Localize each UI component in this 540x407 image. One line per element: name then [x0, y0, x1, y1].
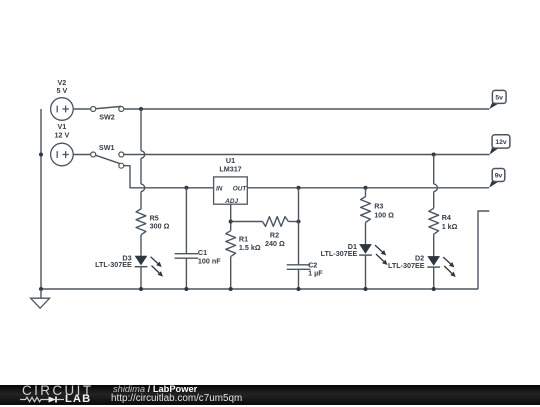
- wire left vertical from sources to ground rail: [40, 109, 42, 289]
- resistor R1: [226, 231, 236, 257]
- label R5 300 Ohm: [150, 213, 170, 230]
- svg-text:OUT: OUT: [233, 186, 248, 193]
- pin label IN: [216, 186, 223, 193]
- resistor R4 branch wire with hop: [434, 155, 438, 209]
- wire 12v rail: [51, 154, 490, 156]
- svg-text:SW1: SW1: [99, 143, 115, 152]
- label R3 100 Ohm: [374, 201, 394, 219]
- capacitor C2: [287, 265, 311, 270]
- LED D1: [359, 244, 387, 265]
- svg-text:ADJ: ADJ: [224, 198, 238, 205]
- label C2 1 uF: [308, 260, 323, 277]
- svg-text:IN: IN: [216, 186, 223, 193]
- CircuitLab logo wordmark: [22, 384, 93, 397]
- svg-text:R3: R3: [374, 201, 383, 210]
- wire R1 to ground rail: [229, 257, 233, 291]
- voltage source V2: [51, 98, 74, 121]
- wire R5 to D3: [140, 235, 142, 256]
- wire 5v rail: [51, 108, 490, 110]
- wire ADJ to R2: [231, 221, 263, 223]
- wire ground rail bottom: [41, 288, 478, 290]
- label V1 12 V: [55, 122, 70, 140]
- capacitor C1 wires: [184, 188, 188, 291]
- LED D3: [135, 256, 163, 277]
- net flag 9v: [489, 169, 505, 188]
- label R1 1.5 kOhm: [239, 234, 261, 252]
- wire D3 to ground rail: [139, 267, 143, 291]
- net flag 5v: [489, 90, 506, 109]
- svg-text:LTL-307EE: LTL-307EE: [321, 249, 358, 258]
- node junction 5v rail to R5 branch: [139, 107, 143, 111]
- label V2 5 V: [57, 78, 68, 95]
- svg-text:R4: R4: [442, 213, 451, 222]
- capacitor C1: [175, 254, 199, 259]
- wire R2 to C2 branch: [288, 220, 300, 224]
- net flag 12v: [490, 135, 510, 155]
- svg-text:1 µF: 1 µF: [308, 269, 323, 278]
- wire R4 to D2: [433, 234, 435, 256]
- node junction 9v rail to C2 branch: [297, 186, 301, 190]
- label C1 100 nF: [198, 248, 221, 265]
- wire right stub up from ground rail: [478, 211, 489, 289]
- svg-text:LTL-307EE: LTL-307EE: [388, 261, 425, 270]
- wire R3 to D1: [365, 223, 367, 245]
- node junction left wire to V1: [39, 153, 43, 157]
- svg-text:1.5 kΩ: 1.5 kΩ: [239, 243, 261, 252]
- pin label ADJ: [224, 198, 238, 205]
- op-amp U1 LM317 box: [214, 177, 248, 204]
- svg-text:240 Ω: 240 Ω: [265, 239, 285, 248]
- svg-text:5 V: 5 V: [57, 86, 68, 95]
- svg-text:300 Ω: 300 Ω: [150, 221, 170, 230]
- voltage source V1: [51, 143, 74, 166]
- label D2 LTL-307EE: [388, 254, 425, 270]
- resistor R5 branch wire with hops: [141, 109, 145, 209]
- wire 9v output rail from LM317 OUT: [247, 187, 489, 189]
- node junction 12v rail to R4 branch: [432, 153, 436, 157]
- switch SW2: [91, 106, 124, 111]
- svg-text:LTL-307EE: LTL-307EE: [95, 260, 132, 269]
- resistor R4: [429, 208, 439, 234]
- switch SW1: [91, 152, 124, 168]
- label SW2: [99, 113, 115, 122]
- label D3 LTL-307EE: [95, 254, 132, 269]
- svg-text:SW2: SW2: [99, 113, 115, 122]
- label U1 LM317: [219, 156, 241, 173]
- resistor R5: [136, 209, 146, 235]
- wire SW1 throw to LM317 IN: [124, 166, 214, 188]
- resistor R2: [263, 217, 289, 227]
- ground: [31, 287, 50, 308]
- label SW1: [99, 143, 115, 152]
- svg-text:9v: 9v: [495, 172, 503, 179]
- wire ADJ pin down: [229, 204, 233, 231]
- wire D1 to ground rail: [364, 255, 368, 291]
- svg-text:12 V: 12 V: [55, 131, 70, 140]
- label D1 LTL-307EE: [321, 242, 358, 258]
- wire D2 to ground rail: [432, 267, 436, 291]
- node junction 9v rail to R3 branch: [364, 186, 368, 190]
- resistor R3: [361, 197, 371, 223]
- svg-text:5v: 5v: [495, 94, 503, 101]
- resistor R3 branch wire: [365, 188, 367, 197]
- svg-text:100 nF: 100 nF: [198, 256, 221, 265]
- svg-text:1 kΩ: 1 kΩ: [442, 222, 458, 231]
- node junction IN rail to C1: [184, 186, 188, 190]
- label R4 1 kOhm: [442, 213, 458, 231]
- pin label OUT: [233, 186, 248, 193]
- LED D2: [427, 256, 455, 277]
- svg-text:100 Ω: 100 Ω: [374, 210, 394, 219]
- capacitor C2 wires: [297, 188, 301, 291]
- svg-text:LM317: LM317: [219, 164, 241, 173]
- CircuitLab logo resistor-diode mark: [20, 395, 70, 407]
- svg-text:12v: 12v: [495, 139, 507, 146]
- label R2 240 Ohm: [265, 231, 285, 248]
